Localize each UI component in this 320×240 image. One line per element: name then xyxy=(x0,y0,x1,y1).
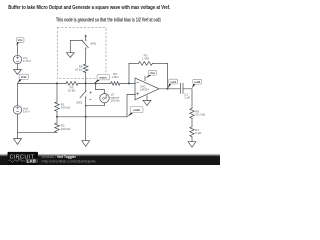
junction Vref rail / R1 branch xyxy=(56,82,58,84)
node flag micro tail xyxy=(94,80,100,84)
flag out2 xyxy=(193,79,202,84)
op-amp OA1 triangle xyxy=(135,78,159,100)
resistor R8 zigzag xyxy=(190,108,194,118)
wire V1 bottom to ground xyxy=(17,64,19,70)
svg-text:1 MΩ: 1 MΩ xyxy=(142,56,150,60)
op-amp plus input wire xyxy=(127,94,135,116)
node flags (boxes) xyxy=(17,37,202,112)
flag Vref xyxy=(19,74,28,79)
junction divider mid / R1-R2 xyxy=(56,116,58,118)
flag micro xyxy=(97,74,110,80)
svg-text:33.2 kΩ: 33.2 kΩ xyxy=(195,113,206,117)
wire R8 to R7 xyxy=(191,118,193,126)
resistor R3 zigzag (feedback) xyxy=(139,62,153,66)
svg-text:LM324: LM324 xyxy=(140,88,149,92)
wire R4 bottom to node xyxy=(85,73,87,83)
ground G3 xyxy=(143,100,151,105)
switch SW2 bottom stub xyxy=(85,98,87,106)
svg-text:micro: micro xyxy=(99,76,107,80)
svg-text:This node is grounded so that: This node is grounded so that the initia… xyxy=(56,17,161,23)
svg-text:out2: out2 xyxy=(194,80,200,84)
ground G2 stub xyxy=(69,40,71,52)
svg-text:1 μF: 1 μF xyxy=(184,96,190,100)
flag multi xyxy=(130,107,143,113)
svg-text:Vcc: Vcc xyxy=(18,38,23,42)
resistor R2 zigzag xyxy=(55,123,60,132)
junction inverting input / feedback tap xyxy=(128,82,130,84)
op-amp output wire xyxy=(159,88,180,90)
svg-text:100 Hz: 100 Hz xyxy=(111,98,121,102)
svg-text:100 kΩ: 100 kΩ xyxy=(61,127,71,131)
svg-text:10 kΩ: 10 kΩ xyxy=(75,68,83,72)
source V2 circle xyxy=(100,94,109,103)
svg-text:100 kΩ: 100 kΩ xyxy=(61,105,71,109)
svg-text:http://circuitlab.com/c5uk5qw4: http://circuitlab.com/c5uk5qw4e xyxy=(42,159,96,164)
wire feedback top left xyxy=(129,62,139,64)
footer logo LAB xyxy=(26,159,38,163)
switch SW2 lever xyxy=(80,92,85,98)
junction Vref rail / R4-SW2 branch xyxy=(85,82,87,84)
wire center vertical to ground xyxy=(85,106,87,141)
wire R1 branch xyxy=(56,83,58,101)
capacitor C1 plates xyxy=(180,83,183,93)
svg-text:Vref: Vref xyxy=(21,75,26,79)
wire R5 to op-amp minus xyxy=(120,82,136,84)
divider mid rail xyxy=(57,116,127,118)
node flag Vcc (top left) tail xyxy=(16,42,19,46)
wire R7 to ground xyxy=(191,137,193,142)
component labels xyxy=(23,41,206,135)
wire R1 to mid xyxy=(56,112,58,123)
resistor R6 zigzag xyxy=(66,82,78,86)
resistor R5 zigzag (1M input) xyxy=(111,82,120,86)
svg-text:3.8 V: 3.8 V xyxy=(23,109,30,113)
wire Vref horizontal rail xyxy=(18,82,67,84)
wire Vref node: corner down to V2 source xyxy=(17,83,19,105)
switch SW1 xyxy=(81,40,82,41)
wire V2 bottom rail xyxy=(86,103,105,106)
wire Vref source bottom down xyxy=(17,114,19,139)
junction SW2 bottom / V2 bottom rail xyxy=(85,105,87,107)
svg-text:3.76 V: 3.76 V xyxy=(23,59,31,63)
svg-text:LAB: LAB xyxy=(27,158,37,163)
svg-text:Vcc: Vcc xyxy=(150,71,155,75)
svg-text:multi: multi xyxy=(133,108,140,112)
wire bottom rail to R2 xyxy=(18,131,58,133)
V2 plus minus xyxy=(90,92,92,94)
flag Vcc top-left xyxy=(17,37,24,42)
svg-text:SW1: SW1 xyxy=(90,41,97,45)
wire feedback vertical left xyxy=(128,63,130,83)
switch SW2 top stub xyxy=(85,83,87,90)
footer logo waveform xyxy=(9,159,25,162)
dashed annotation box xyxy=(57,28,106,79)
voltage source V1 (Vcc) xyxy=(13,55,21,63)
node flag out1 tail xyxy=(168,83,172,88)
switch SW1 pole wire xyxy=(70,39,81,41)
wire Vcc flag to V1 top xyxy=(17,45,19,55)
ground G1 xyxy=(14,70,22,75)
resistor R1 zigzag xyxy=(55,102,60,112)
wire C1 to corner xyxy=(183,89,192,109)
ground G6 xyxy=(188,142,196,148)
V2 sine w/ arrow xyxy=(102,97,107,99)
node flag Vref tail xyxy=(17,79,21,83)
svg-text:Buffer to take Micro Output an: Buffer to take Micro Output and Generate… xyxy=(8,5,170,11)
node flag out2 tail xyxy=(192,84,195,89)
wire feedback top right xyxy=(153,62,168,64)
resistor R4 zigzag xyxy=(83,64,88,72)
junction divider mid rail / center ground branch xyxy=(85,116,87,118)
svg-text:1 MΩ: 1 MΩ xyxy=(112,75,120,79)
ground G5 xyxy=(82,141,90,147)
op-amp V+ stub xyxy=(144,76,146,80)
flag out1 xyxy=(169,79,178,84)
footer logo dark patch xyxy=(8,152,39,165)
wire V2 top hookup xyxy=(96,83,105,93)
junction Vref rail / V2 branch (node micro) xyxy=(95,82,97,84)
ground G2 xyxy=(66,53,74,58)
flag Vcc at op-amp xyxy=(149,70,157,75)
wire R6 to R5 xyxy=(78,82,111,84)
voltage source V3 (Vref) xyxy=(13,106,21,114)
node flag multi tail xyxy=(127,113,133,117)
resistor R7 zigzag xyxy=(190,127,194,137)
svg-text:10 kΩ: 10 kΩ xyxy=(68,89,76,93)
wire SW1 to R4 xyxy=(85,49,87,64)
wire feedback vertical right xyxy=(167,63,169,88)
node flag Vcc2 tail xyxy=(146,75,152,79)
junction output / feedback (node out1) xyxy=(167,88,169,90)
op-amp V- stub xyxy=(146,96,148,101)
svg-text:3 kΩ: 3 kΩ xyxy=(195,131,202,135)
svg-text:SW2: SW2 xyxy=(76,100,83,104)
ground G4 xyxy=(14,139,22,145)
svg-text:out1: out1 xyxy=(170,80,176,84)
